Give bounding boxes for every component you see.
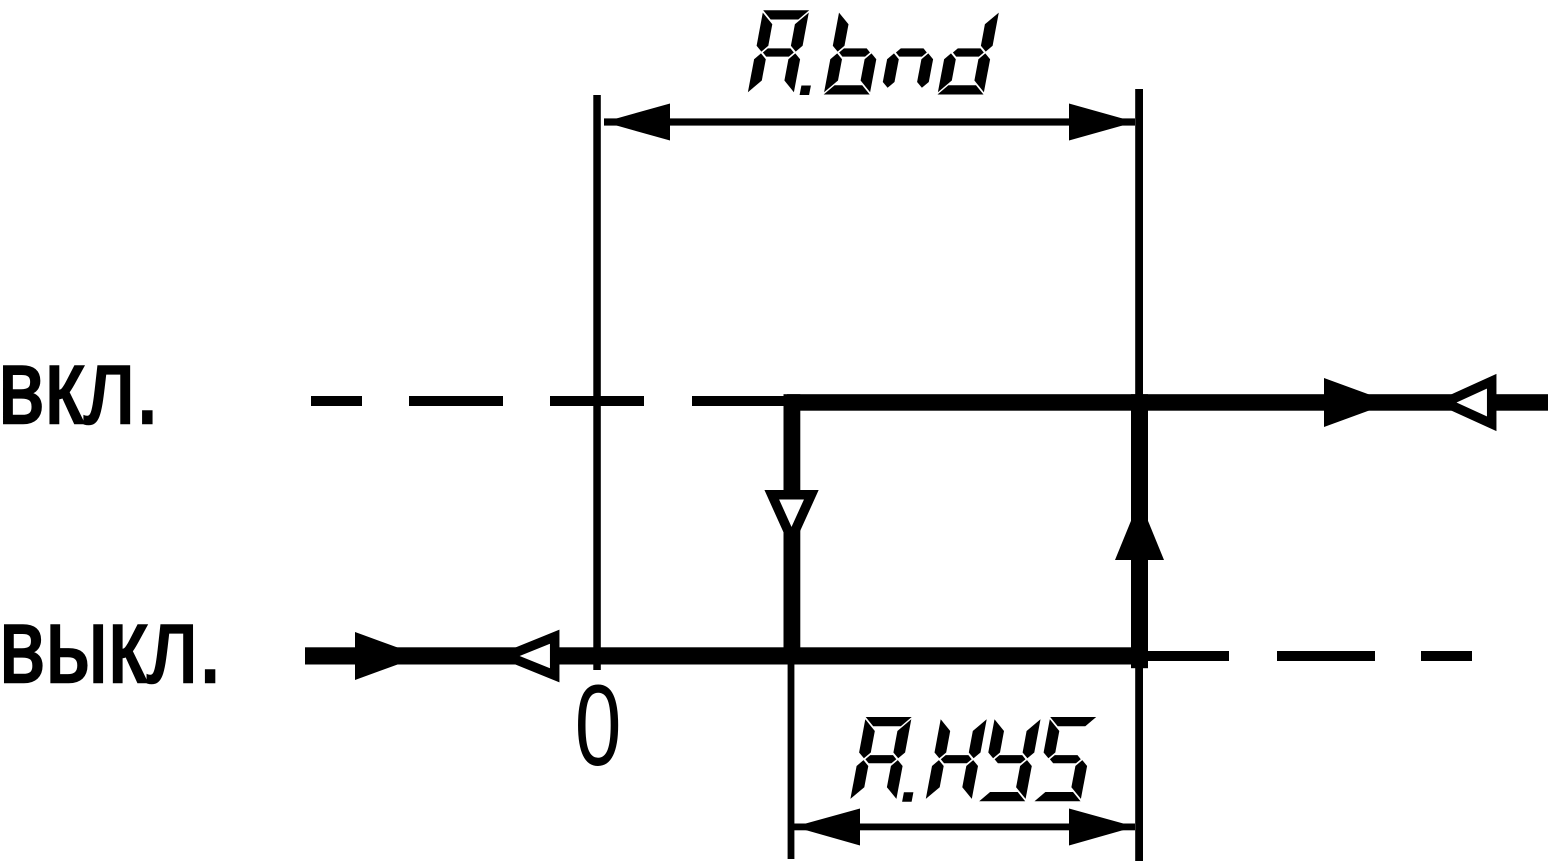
open arrow down (switch-off transition) — [772, 495, 812, 539]
label OFF (vykl.) — [0, 586, 222, 705]
dimension line A.bnd — [604, 118, 1135, 125]
dimension arrowhead right (A.HYS) — [1069, 809, 1135, 846]
svg-text:вкл.: вкл. — [0, 326, 160, 446]
dimension arrowhead left (A.bnd) — [604, 104, 670, 141]
label ON (vkl.) — [0, 326, 160, 446]
axis vertical line (ordinate) — [593, 95, 601, 670]
filled arrow right (ON line, forward direction) — [1324, 378, 1391, 427]
dimension line A.HYS — [794, 824, 1135, 831]
dimension arrowhead left (A.HYS) — [794, 809, 860, 846]
dashed line at OFF level — [1148, 651, 1472, 661]
thick vertical line at lower set-point — [784, 394, 801, 664]
svg-text:выкл.: выкл. — [0, 586, 222, 705]
dimension arrowhead right (A.bnd) — [1069, 104, 1135, 141]
dashed line at ON level — [311, 396, 787, 406]
vertical extension line at lower set-point (below axis) — [788, 664, 795, 859]
label A.bnd (seven-segment) — [748, 10, 999, 95]
thick line ON level (to the right) — [787, 394, 1548, 411]
open arrow left (ON line, reverse direction) — [1445, 381, 1492, 424]
filled arrow right (OFF line, forward direction) — [355, 632, 421, 680]
open arrow left (OFF line, reverse direction) — [507, 637, 555, 676]
filled arrow up (switch-on transition) — [1115, 500, 1164, 560]
thick line OFF level (to the left) — [305, 647, 1148, 664]
thick vertical line at upper set-point — [1131, 394, 1148, 668]
label 0 (origin) — [575, 662, 622, 790]
vertical extension line at upper set-point — [1135, 89, 1143, 861]
label A.HYS (seven-segment) — [850, 717, 1096, 802]
svg-text:0: 0 — [575, 662, 622, 790]
